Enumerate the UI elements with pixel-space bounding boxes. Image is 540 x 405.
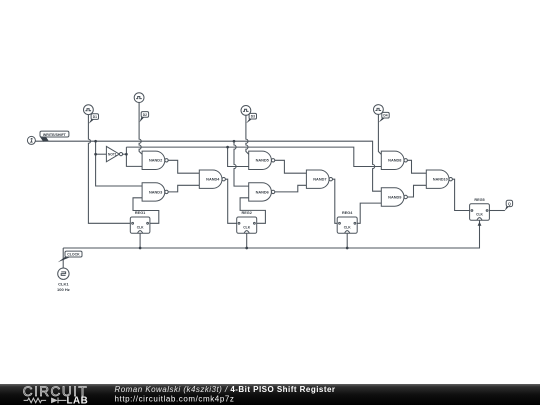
svg-text:CLK: CLK (243, 225, 250, 229)
svg-text:NAND6: NAND6 (256, 190, 269, 194)
flag D1 (89, 114, 99, 124)
d flip-flop REG1 (130, 211, 150, 233)
junction WS rail / stage3 drop (233, 140, 236, 143)
wire NAND4 output to REG2 D input (225, 179, 236, 223)
junction clock rail / REG4 (346, 247, 349, 250)
arrowhead REG5 clk (478, 222, 482, 226)
clock source CLK1 100 Hz (57, 268, 70, 292)
nand gate NAND6 (249, 183, 275, 201)
junction clock rail / REG2 (245, 247, 248, 250)
svg-text:CLK: CLK (476, 212, 483, 216)
wire NOT1 output to node (123, 153, 127, 155)
footer credit text (115, 385, 336, 403)
junction WS rail / stage2 drop (94, 140, 97, 143)
wire D3 vertical to NAND5 top input (246, 115, 249, 154)
wire NAND6 output to NAND7 bottom input (275, 185, 307, 192)
nand gate NAND3 (142, 183, 168, 201)
svg-text:NAND5: NAND5 (256, 159, 270, 163)
nand gate NAND5 (249, 151, 275, 169)
digital source DS4 (D4) (374, 105, 384, 115)
wire REG2 clk stub (246, 233, 248, 248)
wire REG1 Q feedback loop to NAND3 bottom input (133, 198, 159, 224)
d flip-flop REG5 (470, 198, 490, 220)
svg-text:100 Hz: 100 Hz (57, 287, 70, 292)
svg-text:http://circuitlab.com/cmk4p7z: http://circuitlab.com/cmk4p7z (115, 395, 235, 404)
svg-text:D3: D3 (251, 115, 255, 119)
flag WRITE/SHIFT (40, 131, 69, 142)
svg-text:NOT1: NOT1 (108, 152, 117, 156)
wire NAND3 output to NAND4 bottom input (168, 185, 199, 192)
svg-text:REG2: REG2 (242, 211, 252, 215)
nand gate NAND4 (199, 170, 225, 188)
wire clock rail to REG5 clk (63, 220, 479, 248)
svg-text:NAND2: NAND2 (149, 159, 162, 163)
wire NAND5 output to NAND7 top input (275, 160, 307, 173)
junction NOT1 output node (125, 153, 128, 156)
CircuitLab logo wordmark (23, 384, 88, 405)
wire NAND8 output to NAND10 top input (407, 160, 426, 173)
flag D2 (140, 112, 149, 123)
wire NOT1 input stub (96, 153, 107, 155)
d flip-flop REG2 (237, 211, 257, 233)
wire REG2 Q feedback loop to NAND6 bottom input (240, 198, 265, 224)
wire D4 vertical to NAND8 top input (378, 114, 381, 154)
svg-text:CLK1: CLK1 (58, 281, 69, 286)
svg-text:REG1: REG1 (135, 211, 145, 215)
wire REG4 clk stub (346, 233, 348, 248)
svg-text:NAND9: NAND9 (388, 195, 401, 199)
nand gate NAND8 (381, 151, 407, 169)
svg-text:Q: Q (508, 202, 511, 206)
input pin 1 WRITE/SHIFT (27, 136, 35, 144)
wire NAND2 output to NAND4 top input (168, 160, 199, 173)
svg-text:REG5: REG5 (474, 198, 484, 202)
flag Q output (505, 200, 513, 210)
junction NOT1 input tap (94, 153, 97, 156)
wire NAND10 output to REG5 D input (452, 179, 469, 210)
digital source DS3 (D3) (241, 106, 251, 116)
svg-text:NAND8: NAND8 (388, 159, 402, 163)
svg-text:NAND10: NAND10 (433, 178, 448, 182)
wire WS drop stage2 to NAND3 top input (96, 141, 143, 186)
svg-text:NAND4: NAND4 (206, 178, 220, 182)
nand gate NAND7 (306, 170, 332, 188)
svg-text:REG4: REG4 (342, 211, 353, 215)
wire WS drop stage3 to NAND6 top input (234, 141, 249, 186)
digital source DS2 (D2) (134, 93, 144, 103)
nand gate NAND9 (381, 188, 407, 206)
junction rail B / stage3 drop (226, 146, 229, 149)
svg-text:CLK: CLK (137, 225, 144, 229)
svg-text:CLOCK: CLOCK (67, 253, 80, 257)
d flip-flop REG4 (337, 211, 357, 233)
svg-text:D2: D2 (143, 113, 147, 117)
wire REG5 Q output to flag (489, 210, 505, 212)
inverter NOT1 (106, 146, 122, 161)
wire clock source stub (62, 248, 64, 268)
wire REG4 Q to NAND9 bottom input (357, 203, 381, 223)
svg-text:Roman Kowalski (k4szki3t) / 4-: Roman Kowalski (k4szki3t) / 4-Bit PISO S… (115, 385, 336, 394)
svg-text:WRITE/SHIFT: WRITE/SHIFT (43, 133, 67, 137)
footer bar (0, 384, 540, 405)
wire NOT1 node vertical branch (126, 147, 142, 166)
flag CLOCK (58, 251, 82, 262)
wire D2 vertical to NAND2 top input (139, 103, 142, 155)
wire D1 vertical down to REG1 D input (88, 115, 130, 224)
CircuitLab logo resistor-diode symbol (24, 398, 67, 404)
svg-text:D1: D1 (93, 115, 97, 119)
svg-text:NAND7: NAND7 (313, 178, 326, 182)
junction clock rail / REG1 (139, 247, 142, 250)
wire WS rail from pin 1 across top, down at right to NAND9 top input (35, 141, 381, 191)
nand gate NAND2 (142, 151, 168, 169)
svg-text:LAB: LAB (67, 396, 89, 405)
wire rail B drop stage3 to NAND5 bottom input (228, 147, 249, 166)
digital source DS1 (D1) (84, 105, 94, 115)
flag D3 (246, 113, 256, 123)
wire REG1 clk stub (139, 233, 141, 248)
wire rail B (NOT-WS) across to NAND8 bottom input (126, 147, 381, 166)
svg-text:CLK: CLK (344, 225, 351, 229)
flag D4 (379, 112, 389, 122)
nand gate NAND10 (426, 170, 452, 188)
svg-text:D4: D4 (383, 114, 387, 118)
svg-text:NAND3: NAND3 (149, 190, 162, 194)
wire NAND9 output to NAND10 bottom input (407, 185, 426, 197)
wire NAND7 output to REG4 D input (333, 179, 338, 223)
